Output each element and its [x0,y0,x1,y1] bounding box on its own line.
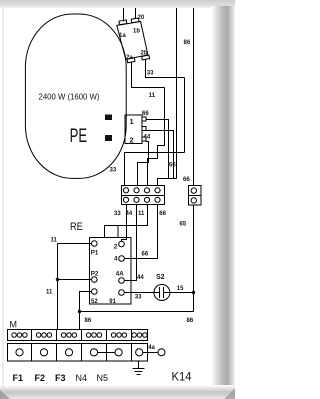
svg-text:N5: N5 [97,373,109,383]
terminal mark upper (element to cutout) [105,115,112,121]
wire strip11 to relay coil [105,205,148,226]
svg-text:1a: 1a [119,33,126,39]
wire lamp to right net [164,292,194,294]
svg-text:65: 65 [180,222,187,228]
wire strip33 to relay pin2 [122,205,127,242]
svg-text:F2: F2 [35,373,46,383]
wire link N4-N5 [98,352,115,354]
svg-text:F1: F1 [13,373,24,383]
door switch tab 2b [142,55,150,60]
cutout pin mid square [142,127,146,131]
wire net 11 from door switch 2a [132,62,165,88]
svg-text:P1: P1 [91,250,99,257]
cutout pin 1 square [142,117,146,121]
relay coil notch [105,226,119,238]
door switch tab 2a [127,58,135,63]
svg-text:11: 11 [149,93,156,99]
svg-text:33: 33 [110,168,117,174]
wire strip66 to relay pin 4 [124,205,157,259]
svg-text:F3: F3 [55,373,66,383]
relay pin 2 [119,241,125,247]
svg-text:4: 4 [114,256,118,263]
svg-text:33: 33 [114,211,121,217]
svg-text:52: 52 [91,299,98,305]
svg-text:11: 11 [138,211,145,217]
connector strip 4-pole [122,186,165,205]
svg-text:2400 W (1600 W): 2400 W (1600 W) [39,93,100,102]
thermal cutout box [125,115,142,144]
svg-text:11: 11 [51,238,58,244]
relay pin P2 [92,277,98,283]
svg-text:2: 2 [130,136,134,145]
wire net 11 staircase to strip [148,88,165,186]
svg-text:20: 20 [138,15,145,21]
wire to K14 terminal [143,352,158,354]
svg-text:15: 15 [177,286,184,292]
relay pin 4 [119,256,125,262]
connector 2-pole [189,186,202,206]
svg-text:2: 2 [114,243,118,250]
fuse/terminal strip F1-N5 [8,344,148,362]
relay pin 33 [119,290,125,296]
junction dot right net [192,291,195,294]
wire 11 to P2 [58,279,92,281]
svg-text:66: 66 [142,111,149,117]
wire 11 to P1 [58,243,92,245]
wire relay 33 to lamp S2 [124,292,159,294]
wire connector down to net 86 [193,205,195,312]
svg-text:4a: 4a [148,345,155,351]
svg-text:1b: 1b [133,29,140,35]
svg-text:1: 1 [130,117,134,126]
door switch tab 1b [131,18,139,23]
svg-text:86: 86 [184,40,191,46]
labels F1 F2 F3 N4 N5 K14 [13,372,193,384]
svg-text:66: 66 [159,211,166,217]
junction dot net 86 left [78,310,81,313]
wire net 86 horizontal [80,311,194,313]
svg-text:91: 91 [109,299,116,305]
svg-text:2b: 2b [141,51,148,57]
svg-text:86: 86 [85,318,92,324]
heating element PE 2400W [25,14,126,178]
door switch tab 1a [119,20,127,25]
relay pin P1 [92,241,98,247]
svg-text:N4: N4 [76,373,88,383]
svg-text:PE: PE [70,125,88,147]
svg-text:K14: K14 [172,372,193,384]
wire net to 2-pole connector from top [193,8,195,186]
K14 terminal circle [158,349,165,356]
svg-text:33: 33 [135,294,142,300]
svg-text:RE: RE [70,221,83,233]
wire net 33 horizontal to strip [125,153,185,186]
svg-text:86: 86 [187,318,194,324]
svg-text:44: 44 [144,135,151,141]
wire net 66 link to strip [158,179,177,186]
M strip (motor terminal) [8,330,148,341]
svg-text:44: 44 [137,275,144,281]
relay pin 4A [119,278,125,284]
svg-text:11: 11 [46,289,53,295]
wire top tab1 to edge [123,8,125,22]
wire cutout pin2 staircase to strip 44 [138,142,149,186]
wire net 33 from door switch 2b [146,60,185,78]
svg-text:66: 66 [169,163,176,169]
junction dot 11/P2 [56,278,59,281]
ground symbol [133,361,145,375]
wire net 33 vertical right [184,78,186,153]
svg-text:66: 66 [142,251,149,257]
svg-text:S2: S2 [156,274,165,281]
svg-text:66: 66 [183,177,190,183]
door switch body [117,22,148,60]
svg-text:4A: 4A [116,270,124,277]
wire strip44 to relay pin 4A [124,205,136,281]
svg-text:33: 33 [147,71,154,77]
svg-text:2a: 2a [126,55,133,61]
cutout pin 2 square [142,137,146,141]
relay RE box [90,238,132,305]
svg-text:P2: P2 [91,270,99,277]
lamp S2 [154,285,170,301]
wire lower-left pin down to M strip [80,292,92,330]
wire cutout pin1 to net66 [146,120,169,179]
terminal mark lower (element to cutout) [105,135,112,141]
svg-text:44: 44 [126,211,133,217]
wire top tab2 to edge [135,8,137,19]
wire net 66 vertical from top [176,8,178,179]
svg-text:M: M [10,320,18,330]
relay pin lower-left [92,289,98,295]
wire cutout mid pin [146,131,174,179]
wire 11 left vertical [57,244,59,330]
